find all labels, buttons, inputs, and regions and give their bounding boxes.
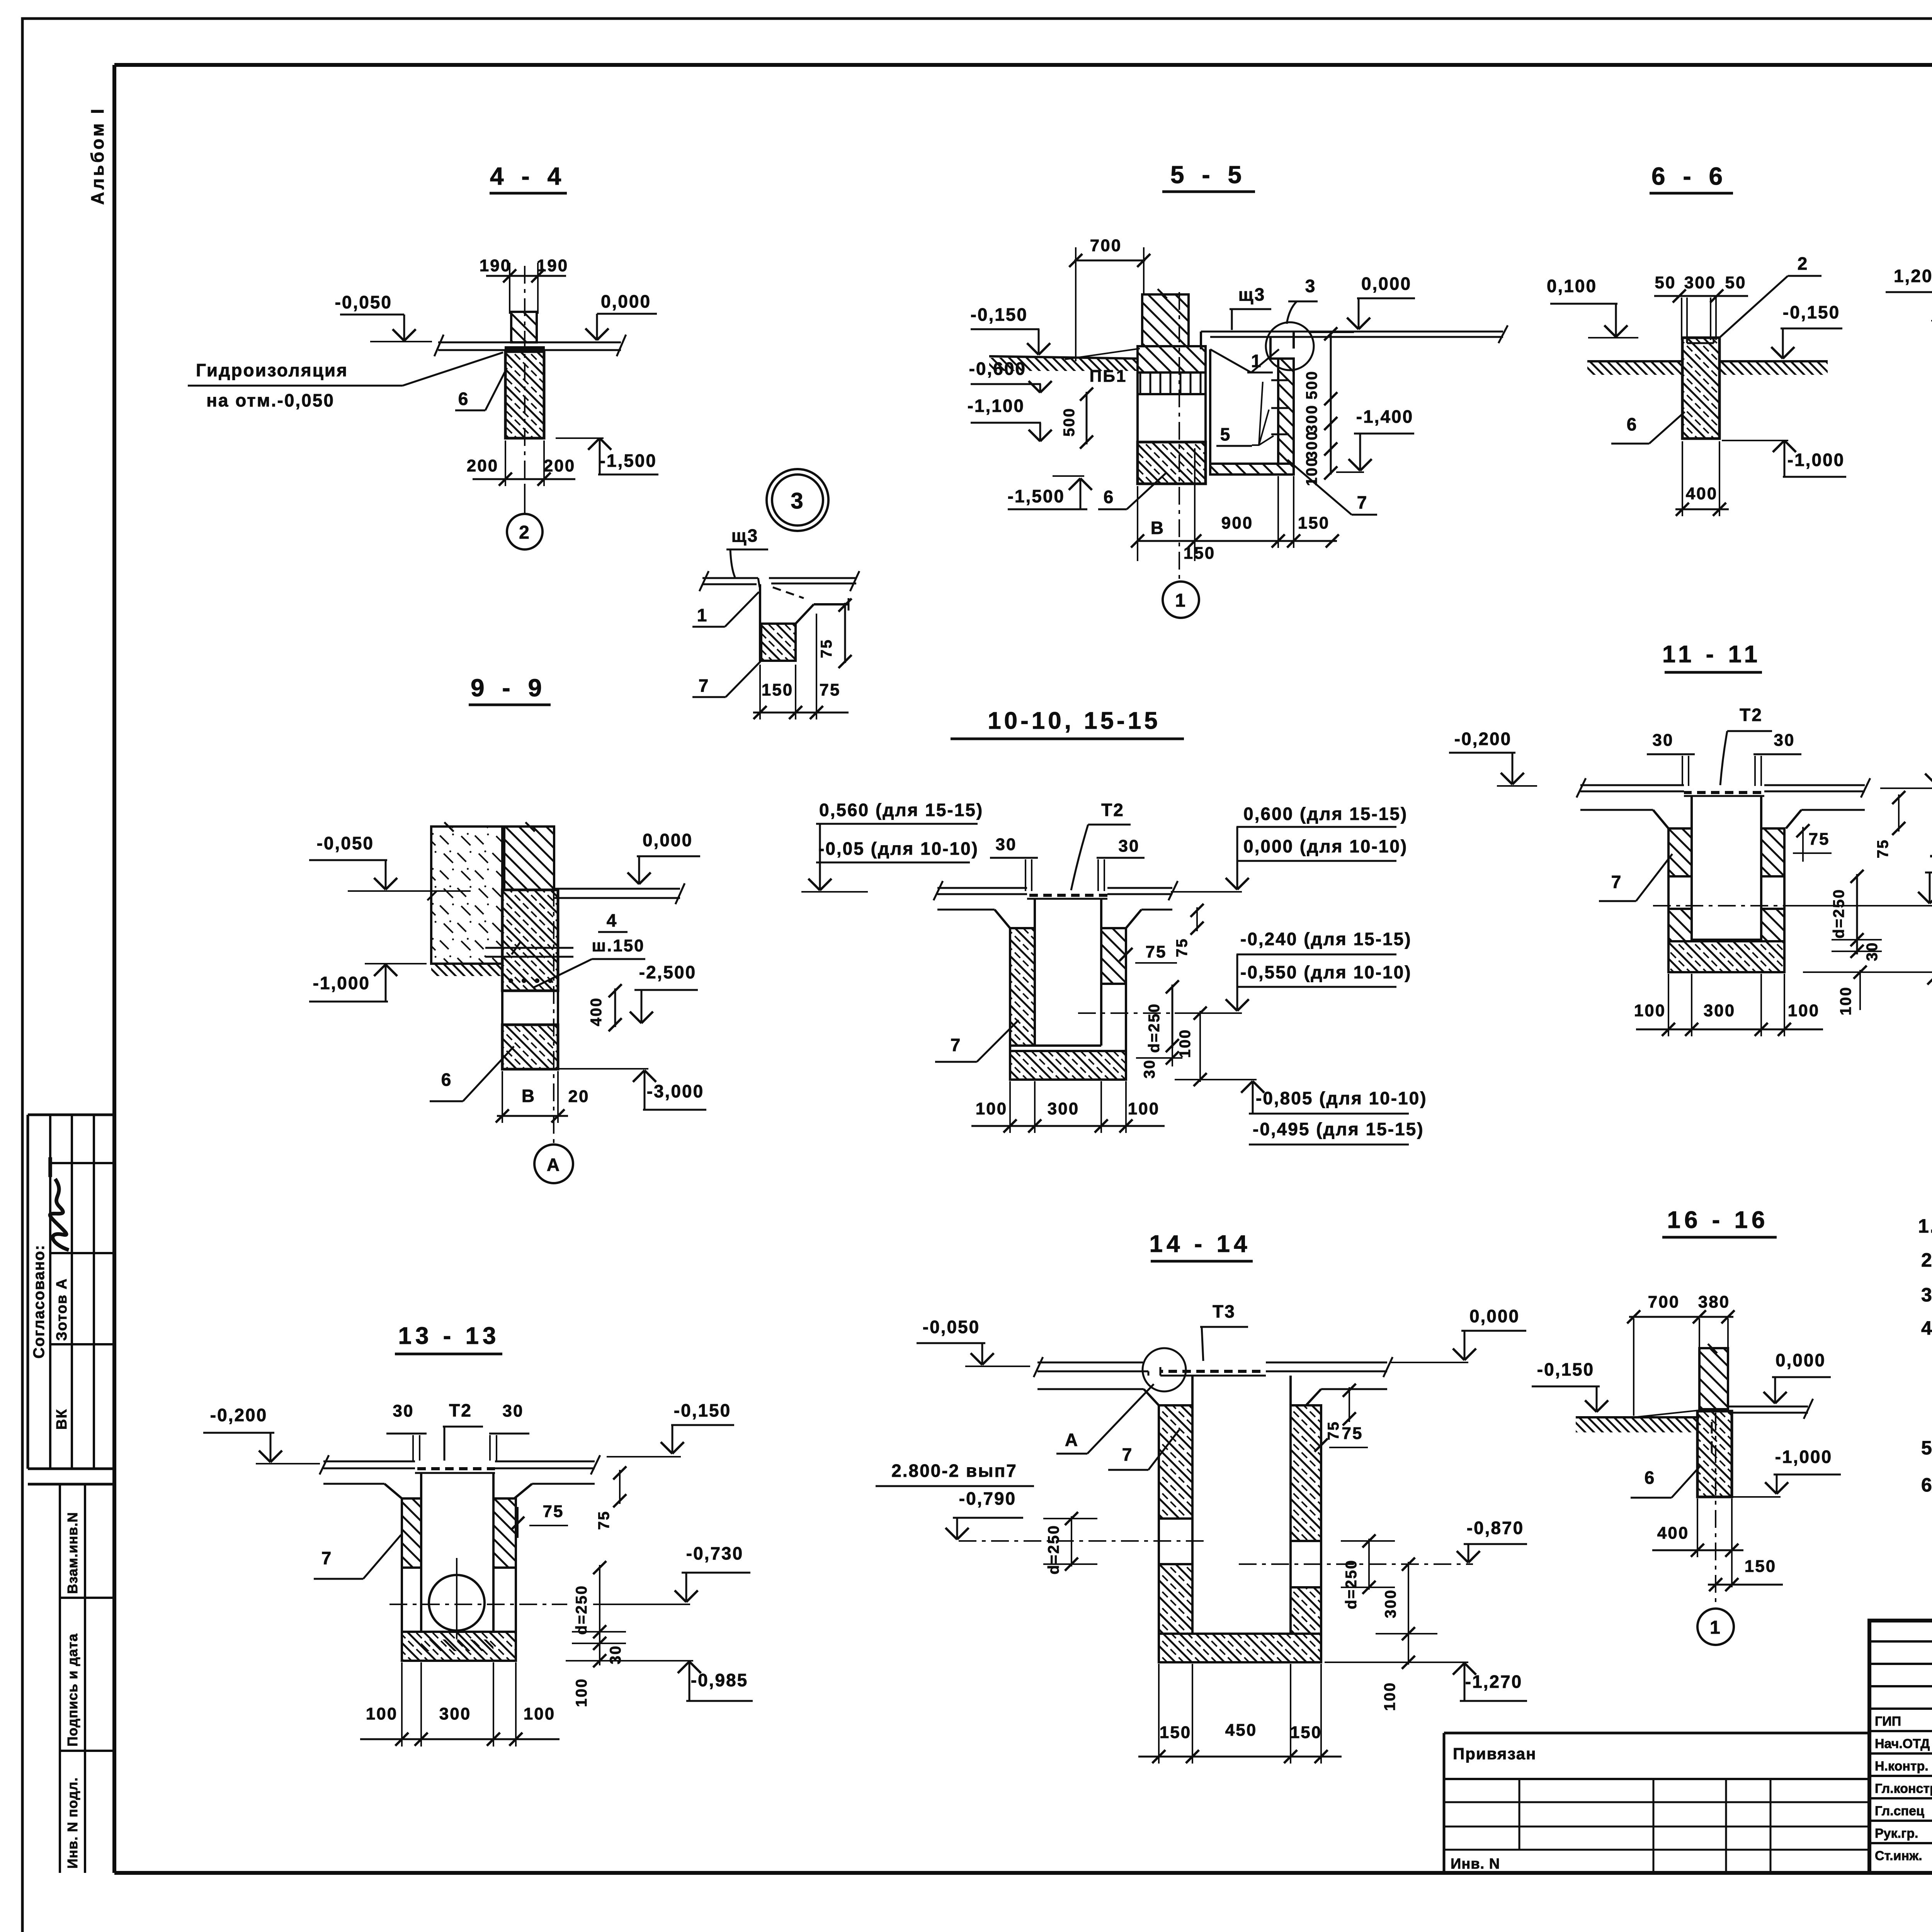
svg-text:-0,495 (для 15-15): -0,495 (для 15-15) (1253, 1119, 1424, 1139)
section 11-11 drawing (1449, 705, 1932, 1036)
svg-text:100: 100 (1837, 986, 1854, 1015)
svg-text:300: 300 (1382, 1589, 1399, 1618)
svg-text:-0,05 (для 10-10): -0,05 (для 10-10) (818, 838, 979, 859)
svg-text:30: 30 (393, 1401, 414, 1420)
svg-text:-0,050: -0,050 (923, 1317, 980, 1337)
svg-text:20: 20 (568, 1087, 590, 1106)
section 16-16 drawing (1532, 1293, 1841, 1645)
svg-text:4 - 4: 4 - 4 (490, 162, 566, 190)
left stamp table Согласовано (28, 1115, 114, 1469)
svg-text:150: 150 (1290, 1723, 1322, 1742)
svg-text:Взам.инв.N: Взам.инв.N (65, 1512, 80, 1594)
svg-text:75: 75 (1874, 839, 1891, 859)
svg-text:Инв. N подл.: Инв. N подл. (65, 1777, 80, 1869)
title block texts (1875, 1646, 1932, 1865)
svg-text:Т2: Т2 (1740, 705, 1763, 725)
svg-text:А: А (547, 1155, 561, 1175)
svg-text:16 - 16: 16 - 16 (1667, 1207, 1769, 1233)
svg-text:-0,790: -0,790 (959, 1488, 1016, 1509)
svg-text:150: 150 (1298, 514, 1330, 532)
svg-text:6: 6 (1627, 414, 1638, 434)
svg-text:Т3: Т3 (1213, 1301, 1236, 1321)
svg-text:Гл.констр: Гл.констр (1875, 1781, 1932, 1796)
svg-text:400: 400 (1686, 484, 1718, 503)
svg-text:-2,500: -2,500 (639, 962, 696, 982)
svg-text:на отм.-0,050: на отм.-0,050 (206, 390, 335, 410)
svg-text:500: 500 (1061, 407, 1078, 437)
svg-text:ш.150: ш.150 (592, 936, 645, 955)
svg-text:200: 200 (467, 456, 498, 475)
svg-text:300: 300 (1303, 430, 1320, 460)
svg-text:-0,240 (для 15-15): -0,240 (для 15-15) (1240, 929, 1412, 949)
svg-text:10-10, 15-15: 10-10, 15-15 (988, 707, 1161, 734)
svg-text:100: 100 (366, 1704, 398, 1723)
svg-text:0,000 (для 10-10): 0,000 (для 10-10) (1243, 836, 1408, 856)
svg-text:30: 30 (1141, 1059, 1158, 1079)
svg-text:-0,870: -0,870 (1467, 1518, 1524, 1538)
svg-text:-0,805 (для 10-10): -0,805 (для 10-10) (1256, 1088, 1427, 1108)
svg-text:d=250: d=250 (1343, 1559, 1360, 1609)
svg-text:75: 75 (818, 639, 835, 658)
svg-text:-0,150: -0,150 (1783, 302, 1840, 322)
svg-text:100: 100 (1634, 1001, 1666, 1020)
svg-text:700: 700 (1090, 236, 1122, 255)
section 10-10,15-15 title (951, 707, 1184, 739)
svg-text:0,000: 0,000 (643, 830, 693, 850)
svg-text:5.: 5. (1921, 1437, 1932, 1459)
svg-text:100: 100 (1128, 1099, 1160, 1118)
svg-text:Зотов А: Зотов А (54, 1278, 70, 1341)
svg-text:75: 75 (1173, 938, 1190, 957)
svg-text:щ3: щ3 (1238, 284, 1265, 304)
svg-text:100: 100 (1788, 1001, 1820, 1020)
svg-text:6: 6 (441, 1070, 452, 1090)
svg-text:75: 75 (1342, 1424, 1363, 1443)
svg-text:100: 100 (573, 1678, 590, 1707)
svg-text:-0,150: -0,150 (971, 304, 1028, 325)
svg-text:Инв. N: Инв. N (1451, 1856, 1500, 1872)
svg-text:300: 300 (1048, 1099, 1079, 1118)
svg-text:300: 300 (1303, 404, 1320, 434)
section 16-16 title (1662, 1207, 1777, 1237)
svg-text:ПБ1: ПБ1 (1090, 367, 1127, 386)
svg-text:1: 1 (1251, 351, 1262, 371)
svg-text:-1,100: -1,100 (968, 396, 1025, 416)
svg-text:150: 150 (762, 680, 793, 699)
svg-text:Согласовано:: Согласовано: (31, 1244, 48, 1359)
svg-text:11 - 11: 11 - 11 (1662, 641, 1761, 668)
svg-text:50: 50 (1725, 273, 1747, 292)
svg-text:-1,400: -1,400 (1356, 406, 1413, 427)
svg-text:0,000: 0,000 (601, 291, 651, 311)
svg-text:7: 7 (1122, 1444, 1133, 1464)
svg-text:0,560 (для 15-15): 0,560 (для 15-15) (819, 800, 983, 820)
svg-text:14 - 14: 14 - 14 (1149, 1231, 1251, 1257)
svg-text:300: 300 (1684, 273, 1716, 292)
svg-text:0,000: 0,000 (1776, 1350, 1826, 1370)
svg-text:-0,050: -0,050 (317, 833, 374, 853)
svg-text:6: 6 (1104, 487, 1115, 507)
svg-text:9 - 9: 9 - 9 (471, 674, 547, 702)
svg-text:d=250: d=250 (573, 1585, 590, 1635)
svg-text:200: 200 (544, 456, 575, 475)
svg-text:7: 7 (1611, 872, 1622, 892)
svg-text:75: 75 (543, 1502, 564, 1521)
svg-text:-1,500: -1,500 (600, 451, 657, 471)
svg-text:Привязан: Привязан (1453, 1745, 1536, 1763)
svg-text:6: 6 (1645, 1468, 1656, 1488)
svg-text:2: 2 (1798, 253, 1809, 274)
svg-text:d=250: d=250 (1045, 1524, 1062, 1575)
svg-text:100: 100 (1177, 1029, 1194, 1058)
svg-text:-1,000: -1,000 (313, 973, 370, 993)
svg-text:В: В (522, 1086, 536, 1106)
svg-text:500: 500 (1303, 370, 1320, 400)
svg-text:2: 2 (519, 522, 531, 543)
svg-text:7: 7 (699, 675, 710, 696)
svg-text:B: B (1151, 518, 1165, 538)
svg-text:3.: 3. (1921, 1284, 1932, 1306)
section 9-9 drawing (309, 822, 706, 1183)
svg-text:Ст.инж.: Ст.инж. (1875, 1849, 1922, 1863)
svg-text:0,100: 0,100 (1547, 276, 1597, 296)
svg-text:Т2: Т2 (449, 1400, 472, 1420)
detail 3 drawing (692, 526, 859, 719)
svg-text:4.: 4. (1921, 1317, 1932, 1339)
section 11-11 title (1662, 641, 1762, 672)
svg-text:Гл.спец: Гл.спец (1875, 1804, 1924, 1818)
svg-text:щ3: щ3 (731, 526, 759, 546)
svg-text:13 - 13: 13 - 13 (398, 1323, 500, 1349)
svg-text:100: 100 (1381, 1682, 1398, 1711)
svg-text:150: 150 (1160, 1723, 1191, 1742)
svg-text:100: 100 (976, 1099, 1007, 1118)
section 4-4 title (490, 162, 567, 193)
svg-text:0,000: 0,000 (1469, 1306, 1520, 1326)
svg-text:400: 400 (1657, 1524, 1689, 1543)
svg-text:-0,150: -0,150 (1537, 1359, 1594, 1379)
svg-text:Т2: Т2 (1101, 800, 1124, 820)
svg-text:3: 3 (1305, 276, 1316, 296)
svg-text:-0,200: -0,200 (210, 1405, 267, 1425)
title block frame (1869, 1621, 1932, 1873)
section 14-14 title (1149, 1231, 1253, 1261)
svg-text:-1,270: -1,270 (1465, 1672, 1522, 1692)
svg-text:d=250: d=250 (1146, 1003, 1163, 1053)
svg-text:-0,550 (для 10-10): -0,550 (для 10-10) (1240, 962, 1412, 982)
svg-text:ГИП: ГИП (1875, 1714, 1901, 1729)
Привязан table (1444, 1733, 1869, 1873)
svg-text:50: 50 (1655, 273, 1676, 292)
section 10-10 drawing (801, 800, 1427, 1145)
section 6-6 title (1650, 162, 1733, 193)
svg-text:5: 5 (1220, 424, 1231, 444)
svg-text:380: 380 (1698, 1293, 1730, 1311)
svg-text:30: 30 (503, 1401, 524, 1420)
svg-text:700: 700 (1648, 1293, 1680, 1311)
svg-text:30: 30 (996, 835, 1017, 854)
svg-text:1: 1 (697, 605, 708, 625)
svg-text:Гидроизоляция: Гидроизоляция (196, 360, 348, 380)
svg-text:300: 300 (439, 1704, 471, 1723)
svg-text:6.: 6. (1921, 1474, 1932, 1496)
svg-text:7: 7 (951, 1035, 962, 1055)
section 4-4 drawing (188, 256, 658, 549)
svg-text:Подпись и дата: Подпись и дата (65, 1633, 80, 1747)
svg-text:75: 75 (1809, 830, 1830, 849)
svg-text:1.: 1. (1918, 1215, 1932, 1237)
svg-text:300: 300 (1704, 1001, 1735, 1020)
svg-text:Н.контр.: Н.контр. (1875, 1759, 1929, 1774)
svg-text:Альбом I: Альбом I (87, 107, 107, 205)
section 14-14 drawing (876, 1301, 1527, 1764)
svg-text:75: 75 (820, 680, 841, 699)
section 6-6 drawing (1547, 253, 1846, 516)
svg-text:400: 400 (588, 997, 605, 1026)
section 9-9 title (469, 674, 551, 705)
svg-text:-1,500: -1,500 (1008, 486, 1065, 506)
svg-text:75: 75 (1325, 1421, 1342, 1440)
svg-text:6 - 6: 6 - 6 (1651, 162, 1728, 190)
section 7-7 drawing (1886, 185, 1932, 600)
detail 3 circle (767, 469, 828, 531)
svg-text:-0,670: -0,670 (1930, 845, 1932, 865)
svg-text:0,600 (для 15-15): 0,600 (для 15-15) (1243, 804, 1408, 824)
svg-text:7: 7 (321, 1548, 333, 1568)
svg-text:1: 1 (1175, 590, 1187, 611)
svg-text:5 - 5: 5 - 5 (1170, 161, 1247, 189)
svg-text:150: 150 (1184, 544, 1215, 563)
section 13-13 title (395, 1323, 502, 1354)
svg-text:30: 30 (1653, 731, 1674, 750)
svg-text:75: 75 (1146, 942, 1167, 961)
svg-text:900: 900 (1221, 514, 1253, 532)
svg-text:-0,730: -0,730 (686, 1543, 743, 1563)
svg-text:0,000: 0,000 (1361, 274, 1412, 294)
svg-text:3: 3 (791, 488, 804, 514)
svg-text:450: 450 (1225, 1721, 1257, 1740)
svg-text:7: 7 (1357, 492, 1368, 512)
svg-text:Нач.ОТД: Нач.ОТД (1875, 1736, 1930, 1751)
svg-text:30: 30 (1774, 731, 1795, 750)
svg-text:-0,050: -0,050 (335, 292, 392, 312)
svg-text:-0,600: -0,600 (969, 359, 1026, 379)
left stamp table Взам.инв. / Подпись и дата / Инв. N подл. (28, 1484, 114, 1873)
svg-text:-1,000: -1,000 (1775, 1447, 1832, 1467)
notes list (1918, 1215, 1932, 1531)
svg-text:1: 1 (1710, 1617, 1721, 1638)
svg-text:150: 150 (1745, 1557, 1776, 1576)
section 5-5 drawing (968, 236, 1508, 618)
svg-text:Рук.гр.: Рук.гр. (1875, 1826, 1918, 1841)
svg-text:d=250: d=250 (1830, 888, 1847, 939)
svg-text:А: А (1065, 1430, 1079, 1450)
svg-text:-0,200: -0,200 (1454, 729, 1512, 749)
svg-text:100: 100 (524, 1704, 555, 1723)
svg-text:2.: 2. (1921, 1249, 1932, 1271)
svg-text:-0,150: -0,150 (674, 1400, 731, 1420)
svg-text:-1,000: -1,000 (1787, 450, 1845, 470)
svg-text:30: 30 (1119, 837, 1140, 855)
section 13-13 drawing (203, 1400, 753, 1747)
svg-text:6: 6 (458, 389, 469, 409)
svg-text:2.800-2 вып7: 2.800-2 вып7 (891, 1461, 1017, 1481)
svg-text:-3,000: -3,000 (647, 1081, 704, 1101)
svg-text:4: 4 (607, 910, 618, 930)
svg-text:190: 190 (480, 256, 511, 275)
svg-text:1,200: 1,200 (1894, 266, 1932, 286)
svg-text:ВК: ВК (54, 1408, 70, 1430)
svg-text:75: 75 (595, 1510, 612, 1530)
section 5-5 title (1162, 161, 1255, 192)
